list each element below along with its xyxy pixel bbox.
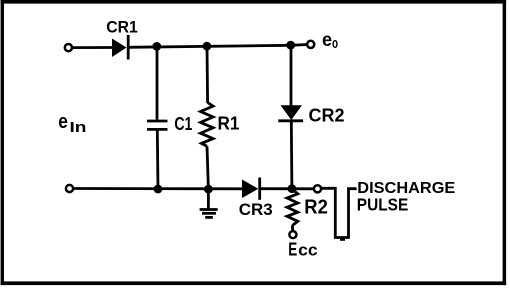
svg-text:R2: R2 — [304, 196, 328, 218]
svg-text:e: e — [58, 111, 68, 133]
svg-text:cc: cc — [298, 242, 318, 260]
svg-text:e: e — [322, 30, 332, 51]
svg-text:CR3: CR3 — [239, 200, 273, 219]
svg-text:CR1: CR1 — [106, 18, 138, 36]
svg-text:CR2: CR2 — [309, 104, 345, 125]
svg-text:PULSE: PULSE — [357, 195, 409, 215]
svg-text:R1: R1 — [218, 112, 240, 133]
svg-text:C1: C1 — [174, 113, 192, 134]
svg-text:In: In — [70, 119, 87, 136]
svg-text:o: o — [332, 35, 338, 52]
svg-text:E: E — [288, 240, 297, 260]
